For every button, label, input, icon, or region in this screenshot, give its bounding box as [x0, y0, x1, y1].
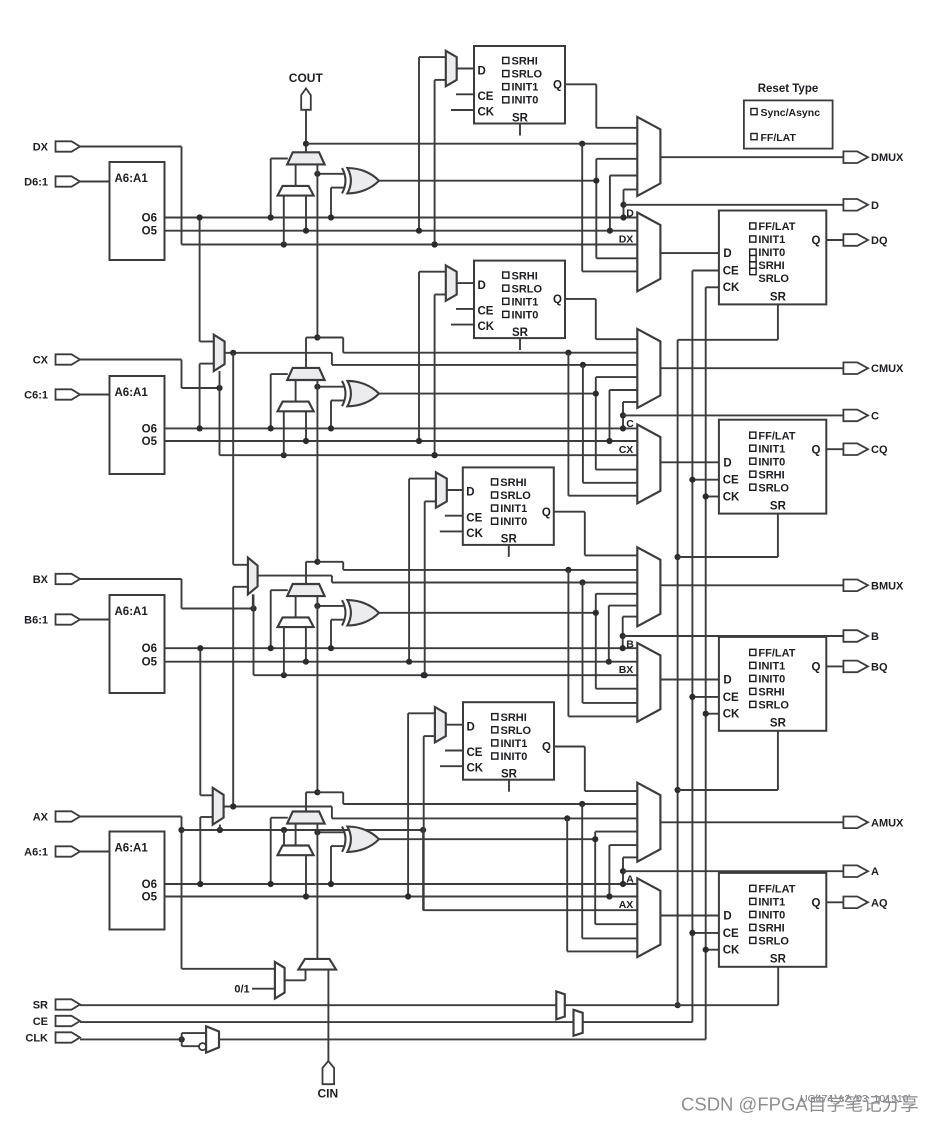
- svg-text:O5: O5: [142, 436, 158, 448]
- svg-text:SRLO: SRLO: [501, 725, 532, 737]
- svg-text:B: B: [626, 639, 634, 651]
- input CE: [56, 1016, 81, 1026]
- svg-text:O6: O6: [142, 879, 157, 891]
- output mux AOUTMUX: [637, 783, 660, 862]
- wire C O5 to DI mux: [305, 411, 307, 441]
- wire CYINIT select out: [285, 979, 306, 981]
- wire C DI mux out: [295, 380, 297, 402]
- wire AFF CE stub: [692, 932, 719, 934]
- svg-text:SRLO: SRLO: [758, 936, 789, 948]
- wire SR rail: [677, 340, 679, 1005]
- wire A5FF mux out: [446, 724, 463, 726]
- svg-text:SR: SR: [512, 112, 529, 124]
- svg-text:SR: SR: [33, 1000, 48, 1012]
- svg-text:INIT1: INIT1: [512, 296, 539, 308]
- wire AX to CYINIT mux: [182, 968, 275, 970]
- svg-text:D6:1: D6:1: [24, 177, 48, 189]
- wire A carry to FFmux: [581, 804, 583, 938]
- wire B O5 bus: [165, 661, 638, 663]
- wire D O6 to outmux and D output: [623, 190, 625, 218]
- wire B5FF SR stub: [508, 545, 510, 557]
- svg-text:CSDN @FPGA自学笔记分享: CSDN @FPGA自学笔记分享: [681, 1094, 919, 1115]
- wire BQ output: [826, 665, 843, 667]
- wire B5FF Q to outmux: [554, 511, 585, 513]
- svg-text:BQ: BQ: [871, 661, 888, 673]
- wire A5FF SR stub: [508, 780, 510, 792]
- wire CMUX output: [660, 367, 843, 369]
- svg-text:FF/LAT: FF/LAT: [761, 132, 797, 144]
- output mux BOUTMUX: [637, 547, 660, 626]
- wire F8 select from BX: [252, 594, 254, 608]
- output arrow CQ: [843, 443, 868, 455]
- wire D carry tap: [306, 143, 637, 145]
- wire F7B to F8: [232, 353, 234, 565]
- wire D XOR bottom input: [331, 187, 344, 189]
- wire D carry to FFmux: [581, 144, 583, 272]
- wire B carry tap: [305, 562, 307, 584]
- wire AX bus: [182, 829, 424, 831]
- svg-text:D: D: [467, 722, 475, 734]
- svg-text:Q: Q: [553, 80, 562, 92]
- svg-text:CK: CK: [723, 491, 740, 503]
- wire D O5 to 5FF mux: [419, 56, 446, 58]
- svg-text:CMUX: CMUX: [871, 363, 904, 375]
- svg-text:SRHI: SRHI: [758, 260, 784, 272]
- wire D5FF CK stub: [451, 109, 474, 111]
- input C6:1: [56, 389, 81, 399]
- wire A F7F8 to FFmux: [566, 818, 568, 951]
- wire AFFmux to FF D input: [660, 915, 719, 917]
- carry DI mux D: [278, 186, 314, 196]
- wire B DI mux out: [295, 596, 297, 617]
- wire C5FF Q to outmux: [565, 298, 596, 300]
- wire B O5 to DI mux: [305, 627, 307, 662]
- wire CE bus: [80, 1021, 574, 1023]
- output mux AFFMUX: [637, 878, 660, 957]
- wire B XOR bottom input: [331, 619, 344, 621]
- LUT D (A6:A1): [110, 162, 165, 260]
- svg-text:Q: Q: [542, 742, 551, 754]
- svg-text:CK: CK: [466, 528, 483, 540]
- output arrow BQ: [843, 661, 868, 673]
- mux SR polarity: [556, 991, 565, 1019]
- wire C O6 bus: [165, 427, 638, 429]
- svg-text:SRLO: SRLO: [758, 482, 789, 494]
- output arrow B: [843, 630, 868, 642]
- svg-text:0/1: 0/1: [234, 983, 249, 995]
- wire A O5 bus: [165, 896, 638, 898]
- wire CFF CE stub: [692, 479, 719, 481]
- svg-text:SRLO: SRLO: [758, 273, 789, 285]
- wire AQ output: [826, 901, 843, 903]
- svg-text:CLK: CLK: [25, 1033, 48, 1045]
- svg-text:D: D: [723, 457, 731, 469]
- svg-text:CK: CK: [723, 282, 740, 294]
- wire DMUX output: [660, 156, 843, 158]
- svg-text:CE: CE: [723, 692, 739, 704]
- XOR gate C (XORCY): [347, 381, 379, 406]
- svg-text:SR: SR: [512, 327, 529, 339]
- wire B O6 bus: [165, 647, 638, 649]
- wire B F7F8 to FFmux: [582, 583, 584, 703]
- svg-text:A6:A1: A6:A1: [115, 173, 149, 185]
- wire C carry to FFmux: [567, 353, 569, 496]
- mux F8MUX: [248, 558, 258, 595]
- svg-text:INIT0: INIT0: [758, 674, 785, 686]
- svg-text:CK: CK: [478, 107, 495, 119]
- wire D5FF CE stub: [456, 93, 474, 95]
- wire D O5 to outmux: [609, 176, 611, 231]
- wire B XOR top input: [317, 605, 343, 607]
- svg-text:CQ: CQ: [871, 444, 888, 456]
- svg-text:D: D: [723, 911, 731, 923]
- input D6:1: [56, 176, 81, 186]
- svg-text:SRLO: SRLO: [512, 69, 543, 81]
- svg-text:DMUX: DMUX: [871, 152, 904, 164]
- input CLK: [56, 1032, 81, 1042]
- wire D O5 bus: [165, 230, 638, 232]
- COUT arrow: [301, 88, 311, 109]
- svg-text:FF/LAT: FF/LAT: [758, 648, 795, 660]
- svg-text:Q: Q: [811, 235, 820, 247]
- svg-text:INIT1: INIT1: [758, 443, 785, 455]
- carry mux D (MUXCY): [287, 152, 324, 164]
- wire B O5 to outmux: [608, 606, 610, 662]
- carry mux A (MUXCY): [287, 812, 324, 824]
- output mux DFFMUX: [637, 213, 660, 292]
- svg-text:O6: O6: [142, 643, 157, 655]
- wire D O6 bus: [165, 217, 638, 219]
- svg-text:CE: CE: [723, 475, 739, 487]
- wire carry chain B to A: [316, 596, 318, 792]
- input BX: [56, 574, 81, 584]
- wire AFF CK stub: [706, 949, 719, 951]
- input SR: [56, 999, 81, 1009]
- svg-text:INIT1: INIT1: [758, 661, 785, 673]
- LUT A (A6:A1): [110, 832, 165, 930]
- wire DX to 5FF mux: [435, 79, 446, 81]
- wire A5FF CE stub: [445, 750, 463, 752]
- svg-text:SR: SR: [770, 501, 787, 513]
- svg-text:SRHI: SRHI: [512, 270, 538, 282]
- wire A O6 to F7A: [199, 817, 201, 884]
- wire A XOR bottom input: [331, 845, 344, 847]
- wire F7A to F8: [232, 587, 234, 807]
- output mux COUTMUX: [637, 329, 660, 408]
- svg-text:Q: Q: [553, 294, 562, 306]
- carry mux B (MUXCY): [287, 584, 324, 596]
- wire D O5 to DI mux: [305, 196, 307, 231]
- wire C carry tap: [305, 338, 307, 368]
- wire carry chain D to C: [316, 164, 318, 337]
- wire A5FF Q to outmux: [554, 746, 585, 748]
- wire C XOR bottom input: [331, 400, 344, 402]
- svg-text:FF/LAT: FF/LAT: [758, 221, 795, 233]
- svg-text:CE: CE: [723, 928, 739, 940]
- svg-text:SRHI: SRHI: [758, 469, 784, 481]
- wire DX bus: [182, 244, 638, 246]
- svg-text:CE: CE: [466, 512, 482, 524]
- svg-text:AQ: AQ: [871, 897, 888, 909]
- wire AX route: [80, 816, 182, 818]
- wire CLK bus: [80, 1038, 182, 1040]
- svg-text:A6:A1: A6:A1: [115, 606, 149, 618]
- svg-text:BMUX: BMUX: [871, 580, 904, 592]
- svg-text:A6:A1: A6:A1: [115, 387, 149, 399]
- wire C O5 to outmux: [609, 390, 611, 441]
- wire B6:1 to LUT: [80, 619, 110, 621]
- wire carry chain C to B: [316, 380, 318, 562]
- svg-text:CX: CX: [619, 444, 634, 456]
- wire AX to DI mux: [283, 830, 285, 846]
- wire A carry tap: [305, 792, 307, 811]
- wire B carry to FFmux: [567, 570, 569, 717]
- storage element D5FF: [474, 46, 565, 124]
- wire BX to DI mux: [283, 627, 285, 675]
- wire D5FF mux out: [457, 68, 474, 70]
- wire C5FF CE stub: [456, 308, 474, 310]
- wire BFFmux to FF D input: [660, 679, 719, 681]
- wire CX to DI mux: [283, 411, 285, 455]
- wire 0/1 to CYINIT mux: [252, 988, 275, 990]
- flip-flop AFF: [719, 873, 826, 967]
- svg-text:INIT1: INIT1: [500, 503, 527, 515]
- svg-text:FF/LAT: FF/LAT: [758, 430, 795, 442]
- wire BFF CE stub: [692, 696, 719, 698]
- wire DX to DI mux: [283, 196, 285, 245]
- mux B5FF input select: [436, 472, 447, 507]
- output arrow A: [843, 865, 868, 877]
- svg-text:Reset Type: Reset Type: [758, 83, 819, 95]
- carry mux C (MUXCY): [287, 368, 324, 380]
- wire B XOR to muxes: [595, 594, 597, 689]
- wire F7A output: [224, 806, 332, 808]
- wire CFFmux to FF D input: [660, 461, 719, 463]
- svg-text:C6:1: C6:1: [24, 390, 48, 402]
- svg-text:C: C: [871, 410, 879, 422]
- wire DFF CE stub: [692, 270, 719, 272]
- svg-text:SR: SR: [770, 718, 787, 730]
- output arrow AQ: [843, 897, 868, 909]
- wire D O6 to F7B: [199, 218, 201, 342]
- svg-text:AX: AX: [33, 812, 49, 824]
- flip-flop DFF: [719, 211, 826, 305]
- svg-text:CE: CE: [478, 91, 494, 103]
- svg-text:SRHI: SRHI: [512, 56, 538, 68]
- svg-text:Q: Q: [811, 898, 820, 910]
- svg-text:INIT0: INIT0: [512, 309, 539, 321]
- LUT B (A6:A1): [110, 595, 165, 693]
- svg-text:Q: Q: [542, 507, 551, 519]
- wire C5FF mux out: [457, 282, 474, 284]
- wire B output: [623, 635, 844, 637]
- wire F7B output: [225, 352, 332, 354]
- mux F7BMUX: [214, 335, 225, 371]
- svg-text:D: D: [466, 487, 474, 499]
- output mux BFFMUX: [637, 643, 660, 722]
- svg-text:SR: SR: [770, 954, 787, 966]
- wire DFFmux to FF D input: [660, 252, 719, 254]
- wire C O5 to 5FF mux: [419, 271, 446, 273]
- svg-text:CK: CK: [478, 321, 495, 333]
- svg-text:SRLO: SRLO: [500, 490, 531, 502]
- svg-text:A6:1: A6:1: [24, 847, 48, 859]
- wire F7A select from AX: [219, 825, 221, 830]
- svg-text:D: D: [478, 65, 486, 77]
- svg-text:CE: CE: [467, 747, 483, 759]
- output arrow AMUX: [843, 817, 868, 829]
- flip-flop CFF: [719, 420, 826, 514]
- svg-text:D: D: [723, 248, 731, 260]
- svg-text:SRHI: SRHI: [758, 687, 784, 699]
- svg-text:D: D: [478, 280, 486, 292]
- wire BX route: [80, 578, 182, 580]
- wire DX route: [80, 146, 182, 148]
- wire carry chain A to CYINIT: [316, 824, 318, 959]
- input CX: [56, 354, 81, 364]
- svg-text:CK: CK: [723, 945, 740, 957]
- wire D XOR top input: [317, 173, 343, 175]
- wire A O6 to outmux and A output: [622, 857, 624, 884]
- svg-text:INIT1: INIT1: [758, 234, 785, 246]
- wire CE bus right: [583, 1021, 693, 1023]
- carry DI mux B: [278, 617, 314, 627]
- wire C XOR top input: [317, 386, 343, 388]
- svg-text:Q: Q: [811, 444, 820, 456]
- svg-text:O6: O6: [142, 213, 157, 225]
- wire A O5 to outmux: [608, 845, 610, 896]
- svg-text:INIT0: INIT0: [758, 910, 785, 922]
- mux F7AMUX: [213, 788, 224, 825]
- wire CX route: [80, 359, 182, 361]
- svg-text:D: D: [626, 207, 634, 219]
- wire CIN riser: [327, 970, 329, 1061]
- output mux CFFMUX: [637, 425, 660, 504]
- mux A5FF input select: [435, 707, 446, 742]
- wire A XOR top input: [317, 831, 343, 833]
- wire C6:1 to LUT: [80, 394, 110, 396]
- svg-text:FF/LAT: FF/LAT: [758, 884, 795, 896]
- input B6:1: [56, 614, 81, 624]
- svg-text:INIT1: INIT1: [512, 82, 539, 94]
- storage element B5FF: [463, 467, 554, 545]
- svg-text:B: B: [871, 631, 879, 643]
- wire D XOR to muxes: [595, 159, 597, 258]
- XOR gate A (XORCY): [347, 827, 379, 852]
- svg-text:SR: SR: [770, 291, 787, 303]
- CIN arrow: [323, 1061, 335, 1084]
- wire BMUX output: [660, 584, 843, 586]
- wire BX to 5FF mux: [425, 500, 436, 502]
- svg-text:AMUX: AMUX: [871, 817, 904, 829]
- svg-text:BX: BX: [33, 574, 49, 586]
- svg-text:CK: CK: [723, 709, 740, 721]
- wire B O6 to outmux and B output: [622, 617, 624, 649]
- wire D DI mux out: [295, 164, 297, 186]
- wire B O5 to 5FF mux: [409, 478, 436, 480]
- wire B5FF CE stub: [445, 515, 463, 517]
- wire A XOR to muxes: [594, 832, 596, 925]
- svg-text:B6:1: B6:1: [24, 615, 48, 627]
- wire C5FF CK stub: [451, 324, 474, 326]
- wire AX to 5FF mux: [424, 735, 435, 737]
- svg-text:A6:A1: A6:A1: [115, 843, 149, 855]
- wire A DI mux out: [295, 824, 297, 846]
- wire AFF SR link: [777, 967, 779, 1005]
- output mux DOUTMUX: [637, 117, 660, 196]
- carry DI mux A: [278, 846, 314, 856]
- wire A5FF CK stub: [440, 765, 463, 767]
- wire C O6 to carry select: [270, 374, 272, 428]
- wire CLK rail: [705, 287, 707, 1039]
- svg-text:SRLO: SRLO: [512, 283, 543, 295]
- wire DFF SR link: [777, 304, 779, 339]
- svg-text:INIT0: INIT0: [758, 247, 785, 259]
- svg-text:SR: SR: [501, 534, 518, 546]
- svg-text:INIT0: INIT0: [758, 456, 785, 468]
- wire B5FF CK stub: [440, 530, 463, 532]
- svg-text:CX: CX: [33, 355, 49, 367]
- wire C5FF SR stub: [519, 338, 521, 350]
- svg-text:CE: CE: [478, 306, 494, 318]
- inverter bubble CLK: [182, 1045, 199, 1047]
- input AX: [56, 811, 81, 821]
- svg-text:SRHI: SRHI: [501, 712, 527, 724]
- XOR gate D (XORCY): [347, 168, 379, 193]
- wire CFF SR link: [777, 514, 779, 557]
- mux CLK polarity: [206, 1026, 219, 1052]
- svg-text:SRHI: SRHI: [500, 477, 526, 489]
- wire CX to 5FF mux: [435, 294, 446, 296]
- input DX: [56, 141, 81, 151]
- svg-text:O5: O5: [142, 226, 158, 238]
- wire DQ output: [826, 239, 843, 241]
- svg-text:INIT1: INIT1: [758, 897, 785, 909]
- wire COUT riser: [305, 110, 307, 153]
- svg-text:INIT0: INIT0: [512, 95, 539, 107]
- svg-text:SRLO: SRLO: [758, 700, 789, 712]
- svg-text:BX: BX: [619, 664, 634, 676]
- wire D output: [624, 204, 844, 206]
- wire A O6 to carry select: [270, 818, 272, 884]
- output arrow DQ: [843, 234, 868, 246]
- wire C XOR to muxes: [595, 377, 597, 470]
- wire CLK direct path: [181, 1033, 183, 1046]
- mux CE polarity: [574, 1010, 583, 1036]
- svg-text:A: A: [871, 866, 879, 878]
- wire A6:1 to LUT: [80, 851, 110, 853]
- flip-flop BFF: [719, 637, 826, 731]
- XOR gate B (XORCY): [347, 600, 379, 625]
- mux CYINIT: [298, 959, 336, 970]
- mux C5FF input select: [446, 265, 457, 300]
- svg-text:O5: O5: [142, 657, 158, 669]
- wire CX bus: [220, 454, 638, 456]
- svg-text:DX: DX: [33, 142, 49, 154]
- svg-text:SRHI: SRHI: [758, 923, 784, 935]
- wire C output: [623, 414, 843, 416]
- wire BFF SR link: [777, 731, 779, 790]
- svg-text:COUT: COUT: [289, 71, 324, 85]
- svg-text:CE: CE: [723, 266, 739, 278]
- output arrow BMUX: [843, 580, 868, 592]
- wire DFF CK stub: [706, 286, 719, 288]
- svg-text:CE: CE: [33, 1016, 48, 1028]
- svg-text:D: D: [871, 200, 879, 212]
- LUT C (A6:A1): [110, 376, 165, 474]
- wire C O6 to F7B: [199, 364, 201, 429]
- wire A O5 to 5FF mux: [408, 712, 435, 714]
